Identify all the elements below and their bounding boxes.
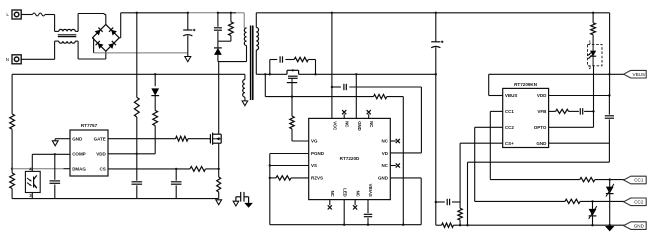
ground U1 — [52, 141, 58, 146]
common-mode choke L1 — [58, 29, 77, 43]
y-capacitor C6 — [236, 192, 249, 203]
tag GND — [624, 222, 647, 230]
svg-text:VBUS: VBUS — [505, 93, 518, 98]
svg-text:RT7220D: RT7220D — [340, 156, 360, 161]
output capacitor C10 — [431, 12, 443, 75]
vdd capacitor C13 — [605, 96, 614, 144]
svg-text:VDD: VDD — [96, 152, 106, 157]
cs filter capacitor C5 — [171, 169, 182, 199]
vcc capacitor C8 — [331, 84, 422, 90]
clamp resistor R2 — [218, 12, 233, 42]
shunt resistor R13 — [436, 223, 625, 227]
ground bulk — [185, 53, 191, 62]
tag CC1 — [624, 176, 647, 184]
snubber capacitor C7 — [270, 56, 294, 74]
wire gnd pin — [55, 139, 70, 141]
svg-text:GATE: GATE — [94, 136, 106, 141]
ground cs — [216, 200, 222, 205]
sr mosfet Q2 — [287, 69, 299, 96]
svg-text:NC: NC — [345, 121, 350, 127]
wire led pin — [343, 200, 345, 225]
mosfet Q1 — [209, 131, 222, 148]
led resistor R18 — [591, 12, 596, 45]
wire vd — [390, 87, 421, 153]
cs+ filter capacitor C11 — [435, 199, 461, 205]
svg-text:CC1: CC1 — [505, 109, 514, 114]
primary dc- line — [94, 52, 188, 54]
bridge rectifier BD1 — [92, 24, 119, 51]
optocoupler U4 photo-transistor — [25, 171, 40, 192]
wire L to choke — [55, 15, 59, 32]
cc1 resistor R15 — [580, 177, 625, 181]
comp capacitor C3 — [50, 154, 61, 198]
cs wire — [108, 168, 190, 170]
svg-text:GND: GND — [378, 175, 389, 180]
svg-text:PGND: PGND — [311, 151, 325, 156]
rzvs resistor R12 — [269, 176, 309, 180]
vfb resistor R17 — [549, 109, 579, 113]
svg-text:COMP: COMP — [72, 152, 86, 157]
gate pulldown resistor R11 — [292, 94, 403, 224]
svg-text:LED: LED — [343, 188, 348, 197]
wire cc2 — [475, 127, 565, 201]
svg-text:RT7209KN: RT7209KN — [514, 82, 538, 87]
svg-text:OPTO: OPTO — [534, 125, 547, 130]
top rail secondary — [263, 12, 610, 14]
dmag divider resistor R4 — [10, 114, 15, 173]
svg-text:NC: NC — [382, 138, 389, 143]
wire choke to bridge bottom — [75, 41, 106, 59]
wire gate loop — [264, 73, 293, 98]
wire gnd u3 — [466, 143, 609, 226]
svg-text:RZVS: RZVS — [311, 175, 323, 180]
wire vcc — [331, 12, 333, 119]
ground aux — [242, 101, 248, 106]
wire clamp to primary winding — [218, 46, 247, 62]
wire dmag — [12, 168, 63, 170]
IC U1 RT7757 — [70, 123, 108, 176]
svg-text:RT7757: RT7757 — [81, 123, 98, 128]
vdd capacitor C4 — [132, 154, 143, 199]
wire opto — [549, 66, 594, 128]
gate resistor R10 — [290, 97, 309, 141]
sr gnd rail — [270, 224, 421, 226]
svg-text:CC1: CC1 — [634, 178, 644, 183]
svg-text:CC2: CC2 — [634, 200, 644, 205]
top rail primary — [121, 12, 245, 14]
tag VBUS — [624, 70, 647, 78]
svg-text:NC: NC — [330, 191, 335, 197]
svg-text:NC: NC — [382, 163, 389, 168]
node startup junction — [136, 12, 138, 14]
wire drain node — [218, 62, 220, 131]
gate resistor R6 — [108, 136, 209, 141]
svg-text:VG: VG — [311, 138, 318, 143]
svg-text:NC: NC — [355, 191, 360, 197]
svg-text:NC: NC — [369, 121, 374, 127]
wire N to choke — [21, 41, 59, 59]
vdd rectifier diode D2 — [151, 73, 159, 110]
svg-text:CS: CS — [100, 166, 106, 171]
cs+ resistor R14 — [458, 202, 462, 226]
vbias capacitor C9 — [364, 200, 372, 225]
wire u2 gnd — [390, 178, 421, 225]
svg-text:CC2: CC2 — [505, 125, 514, 130]
opto led U4 emitter — [588, 44, 603, 65]
svg-text:CS+: CS+ — [505, 141, 514, 146]
svg-text:VBIAS: VBIAS — [368, 184, 373, 197]
dmag divider resistor R5 — [10, 168, 15, 199]
ground y-cap secondary — [244, 203, 253, 208]
wire gnd top — [355, 74, 357, 118]
wire pgnd vs — [269, 154, 309, 225]
svg-text:L: L — [6, 12, 9, 17]
clamp capacitor C2 — [214, 12, 222, 42]
wire output return — [435, 74, 437, 225]
sw wire — [256, 73, 437, 75]
svg-text:GND: GND — [72, 136, 83, 141]
wire cs+ — [460, 143, 503, 202]
IC U2 RT7220D — [309, 118, 391, 199]
vdd resistor R3 — [138, 110, 158, 153]
wire choke to bridge top — [75, 14, 106, 32]
svg-text:N: N — [6, 57, 9, 62]
svg-text:GND: GND — [357, 121, 362, 131]
svg-text:VD: VD — [382, 151, 389, 156]
cc1 clamp diode D3 — [606, 180, 614, 226]
svg-text:2: 2 — [589, 65, 592, 70]
wire cc1 — [490, 111, 580, 179]
svg-text:VDD: VDD — [537, 93, 547, 98]
sense resistor R8 — [217, 148, 221, 199]
terminal L — [6, 10, 21, 19]
wire vbus pin — [489, 73, 625, 95]
IC U3 RT7209KN — [503, 82, 549, 148]
wire vdd u3 — [549, 94, 611, 96]
cc2 resistor R16 — [565, 199, 624, 203]
nc marks U2 — [328, 110, 400, 209]
ground output — [605, 224, 615, 231]
svg-text:GND: GND — [634, 223, 645, 228]
cs resistor R7 — [190, 167, 220, 172]
primary gnd rail — [12, 198, 219, 200]
aux sense line — [12, 74, 245, 114]
vfb capacitor C12 — [580, 108, 594, 114]
transformer T1 — [243, 13, 263, 101]
svg-text:VFB: VFB — [537, 109, 547, 114]
wire vbus rail drop — [609, 13, 611, 96]
vdd wire — [108, 153, 138, 155]
svg-text:VCC: VCC — [332, 121, 337, 130]
wire bridge- down — [92, 38, 93, 53]
svg-text:GND: GND — [536, 141, 547, 146]
svg-text:1: 1 — [589, 40, 592, 45]
ground y-cap primary — [233, 201, 239, 206]
fuse F1 — [21, 13, 54, 16]
tag CC2 — [624, 198, 647, 206]
svg-text:DMAG: DMAG — [72, 166, 86, 171]
bulk capacitor C1 — [183, 12, 195, 53]
wire bridge+ to top rail — [119, 13, 121, 38]
cc2 clamp diode D4 — [589, 201, 597, 226]
wire comp — [32, 153, 70, 155]
startup resistor R1 — [134, 13, 139, 154]
terminal N — [6, 55, 22, 64]
clamp diode D1 — [214, 41, 222, 61]
snubber resistor R9 — [294, 57, 315, 74]
svg-text:VBUS: VBUS — [633, 72, 646, 77]
svg-text:VS: VS — [311, 163, 317, 168]
